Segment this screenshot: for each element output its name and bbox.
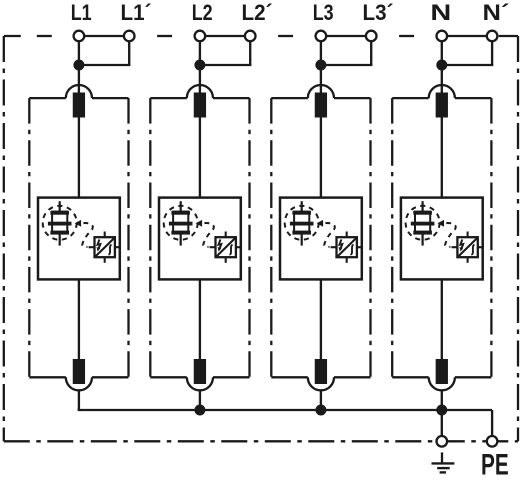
- element top electrode bar: [292, 211, 311, 215]
- svg-text:N´: N´: [483, 0, 510, 25]
- terminal L2: [195, 31, 206, 42]
- module L3: bottom edge with bump: [271, 376, 308, 378]
- thermal disconnector (top, L3): [315, 93, 327, 118]
- indicator right tick: [357, 246, 363, 248]
- module L3: top edge with bump: [271, 97, 308, 99]
- wire: top border solid segment L1-L1´: [79, 35, 129, 37]
- thermal disconnector (bottom, L3): [315, 359, 327, 384]
- enclosure border: bottom dash-dot line: [4, 440, 518, 442]
- indicator right tick: [478, 246, 484, 248]
- spark-gap element dashed circle (L2): [164, 206, 198, 240]
- wire: L2´ across to junction: [199, 64, 252, 66]
- indicator right tick: [236, 246, 242, 248]
- svg-text:PE: PE: [481, 449, 509, 480]
- indicator left tick: [89, 246, 95, 248]
- wire: L2´ terminal drop: [249, 41, 251, 65]
- element bottom electrode bar: [413, 231, 432, 235]
- element top lead: [422, 201, 424, 211]
- dashed action line to indicator (L2): [203, 223, 214, 247]
- action arrowhead toward element (L1): [75, 220, 82, 227]
- action arrowhead toward element (L2): [196, 220, 203, 227]
- indicator current mark: [471, 245, 474, 255]
- wire: bus corner down to PE terminal: [491, 410, 493, 436]
- wire: bottom disconnector to bus: [441, 389, 443, 411]
- SPD element box (N): [401, 198, 483, 280]
- module L2: left dash-dot side: [149, 98, 151, 377]
- thermal disconnector (bottom, N): [436, 359, 448, 384]
- wire: top border solid segment L3-L3´: [321, 35, 371, 37]
- element middle electrode bar: [48, 222, 72, 226]
- indicator bottom tick: [225, 257, 227, 263]
- indicator diagonal: [217, 238, 235, 256]
- module N: right dash-dot side: [490, 98, 492, 377]
- wire: SPD box to bottom disconnector: [78, 279, 80, 359]
- svg-text:L2: L2: [192, 0, 213, 25]
- SPD element box (L1): [38, 198, 120, 280]
- wire: top border solid segment N-N´: [442, 35, 492, 37]
- spark-gap element dashed circle (L3): [285, 206, 319, 240]
- indicator bottom tick: [346, 257, 348, 263]
- module N: top edge with bump: [392, 97, 429, 99]
- thermal disconnector (top, L1): [73, 93, 85, 118]
- svg-text:L3: L3: [313, 0, 334, 25]
- indicator bottom tick: [104, 257, 106, 263]
- indicator top tick: [225, 232, 227, 238]
- wire: bottom disconnector to bus: [78, 389, 80, 411]
- earth terminal: [437, 436, 448, 447]
- junction dot (N/N´): [436, 60, 447, 71]
- thermal disconnector (top, N): [436, 93, 448, 118]
- junction dot (L1/L1´): [73, 60, 84, 71]
- wire: PE bus: [78, 409, 492, 411]
- element top electrode bar: [413, 211, 432, 215]
- wire: junction down to top disconnector: [320, 65, 322, 94]
- junction dot (bus, L2): [194, 405, 205, 416]
- action arrowhead toward element (L3): [317, 220, 324, 227]
- wire: SPD box to bottom disconnector: [320, 279, 322, 359]
- indicator diagonal: [96, 238, 114, 256]
- dashed action line to indicator (L1): [82, 223, 93, 247]
- indicator flash symbol: [460, 239, 463, 249]
- indicator current mark: [229, 245, 232, 255]
- element top electrode bar: [50, 211, 69, 215]
- terminal L1: [74, 31, 85, 42]
- indicator current mark: [108, 245, 111, 255]
- ground symbol bar 1: [432, 462, 455, 464]
- svg-text:L2´: L2´: [242, 0, 273, 25]
- disconnection indicator square (N): [457, 237, 477, 257]
- svg-text:L1´: L1´: [121, 0, 152, 25]
- wire: bottom disconnector to bus: [199, 389, 201, 411]
- wire: top disconnector to SPD box: [199, 118, 201, 198]
- module L2: bottom edge with bump: [150, 376, 187, 378]
- indicator current mark: [350, 245, 353, 255]
- wire: SPD box to bottom disconnector: [199, 279, 201, 359]
- element bottom lead: [180, 234, 182, 245]
- indicator diagonal: [338, 238, 356, 256]
- ground symbol bar 3: [440, 471, 446, 473]
- module L1: bottom edge with bump: [29, 376, 66, 378]
- module L1: top edge with bump: [29, 97, 66, 99]
- element body outline: [415, 212, 430, 233]
- svg-text:N: N: [430, 0, 451, 25]
- junction dot (bus, N): [436, 405, 447, 416]
- element top electrode bar: [171, 211, 190, 215]
- svg-text:L3´: L3´: [363, 0, 394, 25]
- wire: N terminal down to junction: [441, 41, 443, 65]
- module L3: left dash-dot side: [270, 98, 272, 377]
- module L3: right dash-dot side: [369, 98, 371, 377]
- terminal L3´: [366, 31, 377, 42]
- wire: top disconnector to SPD box: [320, 118, 322, 198]
- indicator flash symbol: [340, 239, 343, 249]
- dashed action line to indicator (N): [445, 223, 456, 247]
- element middle electrode bar: [411, 222, 435, 226]
- thermal disconnector (top, L2): [194, 93, 206, 118]
- wire: junction down to top disconnector: [199, 65, 201, 94]
- module N: left dash-dot side: [391, 98, 393, 377]
- wire: L1 terminal down to junction: [78, 41, 80, 65]
- spark-gap element dashed circle (L1): [43, 206, 77, 240]
- ground symbol bar 2: [437, 467, 450, 469]
- module N: bottom edge with bump: [392, 376, 429, 378]
- wire: junction down to top disconnector: [441, 65, 443, 94]
- wire: L1´ across to junction: [78, 64, 130, 66]
- svg-text:L1: L1: [71, 0, 92, 25]
- terminal N: [437, 31, 448, 42]
- element middle electrode bar: [290, 222, 314, 226]
- element top lead: [59, 201, 61, 211]
- element body outline: [52, 212, 67, 233]
- wire: top border solid segment L2-L2´: [200, 35, 250, 37]
- dashed action line to indicator (L3): [324, 223, 335, 247]
- indicator left tick: [452, 246, 458, 248]
- indicator top tick: [467, 232, 469, 238]
- indicator flash symbol: [98, 239, 101, 249]
- thermal disconnector (bottom, L1): [73, 359, 85, 384]
- wire: junction down to top disconnector: [78, 65, 80, 94]
- junction dot (bus, L3): [315, 405, 326, 416]
- indicator diagonal: [459, 238, 477, 256]
- element top lead: [180, 201, 182, 211]
- junction dot (L3/L3´): [315, 60, 326, 71]
- element bottom lead: [301, 234, 303, 245]
- junction dot (L2/L2´): [194, 60, 205, 71]
- module L2: right dash-dot side: [248, 98, 250, 377]
- terminal L3: [316, 31, 327, 42]
- wire: L3 terminal down to junction: [320, 41, 322, 65]
- enclosure border: right dash-dot line: [517, 36, 519, 441]
- SPD element box (L3): [280, 198, 362, 280]
- wire: bus down to earth terminal: [441, 410, 443, 436]
- SPD element box (L2): [159, 198, 241, 280]
- indicator left tick: [331, 246, 337, 248]
- indicator top tick: [104, 232, 106, 238]
- indicator top tick: [346, 232, 348, 238]
- wire: bottom disconnector to bus: [320, 389, 322, 411]
- element middle electrode bar: [169, 222, 193, 226]
- element body outline: [173, 212, 188, 233]
- element top lead: [301, 201, 303, 211]
- wire: L2 terminal down to junction: [199, 41, 201, 65]
- disconnection indicator square (L2): [216, 237, 236, 257]
- terminal L1´: [124, 31, 135, 42]
- terminal L2´: [245, 31, 256, 42]
- PE terminal: [487, 436, 498, 447]
- action arrowhead toward element (N): [438, 220, 445, 227]
- element body outline: [294, 212, 309, 233]
- terminal N´: [487, 31, 498, 42]
- wire: top disconnector to SPD box: [441, 118, 443, 198]
- element bottom electrode bar: [292, 231, 311, 235]
- wire: L3´ terminal drop: [370, 41, 372, 65]
- element bottom lead: [422, 234, 424, 245]
- ground symbol stem: [441, 452, 443, 463]
- element bottom electrode bar: [171, 231, 190, 235]
- thermal disconnector (bottom, L2): [194, 359, 206, 384]
- disconnection indicator square (L1): [95, 237, 115, 257]
- wire: N´ across to junction: [441, 64, 494, 66]
- enclosure border: top dash after L3´: [399, 35, 414, 37]
- wire: L1´ terminal drop: [128, 41, 130, 65]
- spark-gap element dashed circle (N): [406, 206, 440, 240]
- module L1: right dash-dot side: [127, 98, 129, 377]
- enclosure border: left dash-dot line: [3, 36, 5, 441]
- disconnection indicator square (L3): [337, 237, 357, 257]
- indicator flash symbol: [219, 239, 222, 249]
- indicator left tick: [210, 246, 216, 248]
- module L2: top edge with bump: [150, 97, 187, 99]
- wire: N´ terminal drop: [491, 41, 493, 65]
- wire: L3´ across to junction: [320, 64, 373, 66]
- enclosure border: top-left dash run: [4, 35, 21, 37]
- element bottom electrode bar: [50, 231, 69, 235]
- module L1: left dash-dot side: [28, 98, 30, 377]
- indicator bottom tick: [467, 257, 469, 263]
- enclosure border: top dash after L2´: [278, 35, 293, 37]
- enclosure border: top dash after L1´: [157, 35, 172, 37]
- wire: SPD box to bottom disconnector: [441, 279, 443, 359]
- element bottom lead: [59, 234, 61, 245]
- wire: top disconnector to SPD box: [78, 118, 80, 198]
- enclosure border: top segment after N´: [499, 35, 518, 37]
- indicator right tick: [115, 246, 121, 248]
